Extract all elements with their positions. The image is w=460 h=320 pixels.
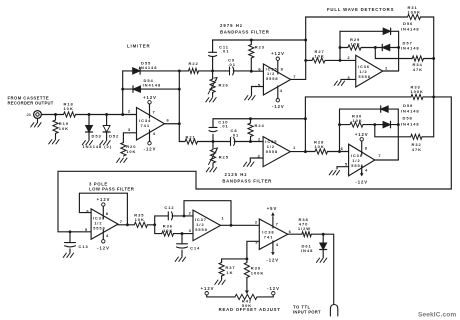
wire IC36b output column	[397, 109, 399, 160]
pin 8 label IC36b	[365, 145, 368, 150]
wire rail to right edge	[434, 97, 452, 189]
op-amp IC36b	[349, 144, 375, 176]
wire IC36a output	[383, 70, 399, 72]
diode D61	[301, 234, 327, 257]
ground at R26	[206, 98, 216, 102]
node output D54	[178, 88, 181, 91]
wire pin2 to IC36a	[340, 59, 356, 61]
node D57 anode	[374, 46, 377, 49]
wire BPF2 feedback rail	[213, 118, 305, 120]
+5V supply IC38	[267, 206, 277, 228]
svg-text:R23: R23	[255, 45, 265, 50]
svg-text:R24: R24	[255, 123, 265, 128]
svg-text:10K: 10K	[315, 54, 325, 59]
svg-text:6: 6	[167, 118, 170, 123]
svg-text:C12: C12	[164, 205, 174, 210]
svg-text:50K: 50K	[242, 303, 252, 308]
svg-text:7: 7	[378, 153, 381, 158]
pin 3 label IC35b	[258, 154, 261, 159]
wire feedback left column	[122, 71, 124, 115]
wire IC35a output	[291, 78, 306, 80]
ground at R19	[49, 140, 59, 144]
pin 3 label IC34	[128, 127, 131, 132]
svg-text:-12V: -12V	[97, 246, 110, 251]
svg-text:IN4148: IN4148	[401, 27, 420, 32]
op-amp IC34	[137, 108, 165, 141]
resistor R38	[288, 217, 324, 237]
svg-text:.01: .01	[220, 124, 228, 129]
label READ OFFSET ADJUST	[219, 307, 281, 312]
node D54 left	[121, 88, 124, 91]
svg-text:2: 2	[258, 137, 261, 142]
svg-text:+12V: +12V	[355, 132, 369, 137]
resistor R21	[179, 134, 213, 144]
svg-text:2975 Hz: 2975 Hz	[220, 23, 243, 28]
label FROM CASSETTE RECORDER OUTPUT	[8, 96, 54, 106]
svg-text:D58: D58	[403, 116, 413, 121]
node D58 cathode	[397, 123, 400, 126]
svg-text:-12V: -12V	[267, 286, 280, 291]
pin 4 label IC35a	[280, 88, 283, 93]
op-amp IC35b	[263, 137, 290, 167]
svg-text:8: 8	[281, 67, 284, 72]
ground at IC36b pin5	[329, 171, 339, 175]
resistor R28	[305, 140, 339, 155]
resistor R20	[121, 143, 137, 157]
node R35 R36 junction	[153, 223, 156, 226]
wire IC37b feedback box	[184, 201, 231, 226]
diode D58	[375, 116, 420, 128]
svg-text:IN48: IN48	[301, 248, 313, 253]
svg-text:SeekIC.com: SeekIC.com	[418, 312, 456, 319]
resistor R31	[408, 5, 434, 20]
label 2125 Hz BANDPASS FILTER	[222, 172, 272, 184]
resistor R29	[340, 37, 375, 50]
ground at IC35b pin3	[244, 162, 254, 166]
svg-text:100K: 100K	[408, 10, 421, 15]
svg-text:6: 6	[289, 229, 292, 234]
wire IC36a feedback left column	[339, 31, 341, 60]
ground at D53	[82, 141, 92, 145]
svg-text:10K: 10K	[353, 118, 363, 123]
trimmer R26	[208, 71, 229, 97]
svg-text:1: 1	[385, 66, 388, 71]
connector J1	[27, 111, 42, 123]
node R19 tap	[54, 113, 57, 116]
wire R36 to pin3	[182, 233, 193, 235]
ground at R25	[206, 168, 216, 172]
pin 4 label IC38	[276, 242, 279, 247]
node BPF1 rail junction	[304, 39, 307, 42]
-12V supply IC35a	[272, 86, 285, 109]
svg-text:4: 4	[280, 88, 283, 93]
-12V supply IC38	[266, 241, 279, 263]
-12V supply IC37a	[97, 230, 110, 251]
node R30 left	[338, 123, 341, 126]
svg-text:TO TTL: TO TTL	[293, 304, 311, 309]
svg-text:5558: 5558	[195, 227, 207, 232]
svg-text:7: 7	[276, 221, 279, 226]
pin 5 label IC37a	[85, 227, 88, 232]
svg-text:.01: .01	[221, 49, 229, 54]
pin 7 label IC37a	[120, 219, 123, 224]
ground at J1	[31, 123, 41, 127]
pin 2 label IC36a	[347, 55, 350, 60]
wire D54 line	[123, 88, 180, 90]
svg-text:BANDPASS FILTER: BANDPASS FILTER	[222, 179, 272, 184]
capacitor C10	[209, 119, 229, 142]
pin 4 label IC37a	[106, 233, 109, 238]
resistor R27	[306, 49, 340, 63]
node D58 anode	[373, 123, 376, 126]
label FULL WAVE DETECTORS	[327, 7, 394, 12]
svg-text:47K: 47K	[412, 147, 422, 152]
+12V supply IC34	[143, 95, 157, 118]
svg-text:R25: R25	[219, 155, 229, 160]
wire pin3 IC36a	[341, 79, 356, 80]
svg-text:741: 741	[264, 234, 274, 239]
label 2975 Hz BANDPASS FILTER	[220, 23, 270, 35]
pin 4 label IC34	[153, 131, 156, 136]
op-amp IC37b	[193, 210, 221, 241]
svg-text:RECORDER OUTPUT: RECORDER OUTPUT	[8, 101, 54, 106]
wire summing to LPF	[58, 171, 451, 232]
wire pin3 IC38	[247, 241, 259, 259]
wire D55 line	[123, 70, 180, 72]
capacitor C8	[213, 128, 251, 146]
svg-text:10K: 10K	[135, 217, 145, 222]
svg-text:-12V: -12V	[355, 180, 368, 185]
svg-text:D59: D59	[403, 103, 413, 108]
svg-text:IN4148: IN4148	[401, 109, 420, 114]
node feedback left	[121, 113, 124, 116]
svg-text:10K: 10K	[64, 106, 74, 111]
svg-text:100K: 100K	[411, 89, 424, 94]
wire pin5 IC35a	[252, 87, 264, 96]
svg-text:4: 4	[153, 131, 156, 136]
label 1N4148 (2)	[83, 144, 113, 149]
node D52 tap	[105, 113, 108, 116]
svg-text:10K: 10K	[126, 149, 136, 154]
svg-text:100K: 100K	[251, 270, 264, 275]
node BPF2 rail junction	[304, 117, 307, 120]
pin 2 label IC37b	[189, 210, 192, 215]
wire summing rail	[433, 17, 435, 137]
node C14 tap	[181, 232, 184, 235]
wire pin6 to IC36b	[340, 151, 349, 153]
node R23 top	[250, 39, 253, 42]
wire to IC35b pin2	[251, 141, 264, 143]
wire to IC35a pin6	[251, 70, 263, 72]
svg-text:4: 4	[106, 233, 109, 238]
svg-text:J1: J1	[27, 113, 32, 117]
wire pin3 IC34	[123, 133, 136, 143]
pin 5 label IC35a	[258, 83, 261, 88]
pin 3 label IC37b	[189, 228, 192, 233]
svg-text:1/2W: 1/2W	[298, 226, 311, 231]
node R37 R39 junction	[245, 257, 248, 260]
node IC36b pin6	[338, 150, 341, 153]
+12V supply IC35a	[271, 51, 285, 74]
potentiometer R42	[210, 294, 271, 308]
svg-text:6: 6	[341, 146, 344, 151]
wire IC36b output	[375, 159, 399, 161]
ground at R20	[117, 158, 127, 162]
svg-text:C13: C13	[79, 244, 89, 249]
svg-text:+5V: +5V	[267, 206, 277, 211]
capacitor C14	[177, 234, 201, 257]
wire D56 line	[340, 30, 399, 32]
svg-text:INPUT PORT: INPUT PORT	[293, 310, 321, 315]
svg-text:4: 4	[365, 167, 368, 172]
wire top rail	[306, 16, 408, 18]
resistor R22	[179, 61, 212, 74]
wire IC37b output	[221, 224, 260, 226]
svg-text:5558: 5558	[266, 149, 278, 154]
ground at C14	[175, 257, 185, 261]
wire C12 to pin2	[184, 215, 193, 217]
capacitor C11	[209, 40, 230, 71]
wire IC37a feedback box	[79, 193, 127, 225]
node C12 out	[183, 214, 186, 217]
pin 1 label IC35b	[293, 145, 296, 150]
node R29 left	[339, 46, 342, 49]
node IC36a pin2	[339, 59, 342, 62]
svg-text:5: 5	[345, 161, 348, 166]
wire R34 jog	[375, 48, 412, 59]
pin 6 label IC36b	[341, 146, 344, 151]
wire BPF1 feedback rail	[213, 39, 306, 41]
pin 2 label IC38	[255, 219, 258, 224]
svg-text:6: 6	[258, 66, 261, 71]
svg-text:IN4148: IN4148	[143, 83, 162, 88]
svg-text:10K: 10K	[315, 144, 325, 149]
label LIMITER	[127, 44, 151, 49]
pin 7 label IC36b	[378, 153, 381, 158]
node D61 tap	[322, 233, 325, 236]
svg-text:D56: D56	[403, 21, 413, 26]
svg-text:+12V: +12V	[201, 286, 215, 291]
svg-text:5558: 5558	[266, 76, 278, 81]
svg-text:47K: 47K	[413, 67, 423, 72]
node IC37a output	[126, 223, 129, 226]
node BPF2 output	[304, 150, 307, 153]
-12V supply IC36b	[355, 166, 368, 185]
wire R37 branch	[222, 258, 247, 260]
node BPF1 R27 junction	[304, 59, 307, 62]
resistor R37	[219, 259, 236, 280]
wire R18 to node	[76, 114, 137, 116]
wire IC35b output	[290, 151, 305, 153]
ground at C13	[63, 253, 73, 257]
watermark SeekIC.com	[418, 312, 456, 319]
op-amp IC38	[259, 219, 287, 249]
svg-text:BANDPASS FILTER: BANDPASS FILTER	[220, 30, 270, 35]
node BPF2 pin2	[249, 140, 252, 143]
diode D56	[383, 21, 420, 35]
svg-text:C14: C14	[190, 246, 200, 251]
resistor R34	[412, 56, 434, 72]
ground at R37	[215, 280, 225, 284]
wiper arrow R42	[245, 278, 249, 295]
resistor R32	[411, 134, 434, 152]
svg-text:10K: 10K	[59, 126, 69, 131]
diode D55	[133, 61, 158, 75]
-12V supply R42	[267, 286, 280, 297]
wire to TTL connector	[323, 234, 334, 304]
diode D57	[375, 40, 419, 50]
node BPF2 input	[212, 140, 215, 143]
pin 6 label IC37a	[86, 208, 89, 213]
resistor R30	[340, 114, 375, 128]
svg-text:IN4148: IN4148	[401, 121, 420, 126]
svg-text:+12V: +12V	[271, 51, 285, 56]
svg-text:IN4148: IN4148	[401, 46, 420, 51]
node BPF1 pin6	[250, 70, 253, 73]
wire BPF2 output column	[304, 97, 306, 152]
+12V supply R42	[201, 286, 215, 297]
wire IC36b feedback left column	[339, 109, 341, 151]
svg-text:LIMITER: LIMITER	[127, 44, 151, 49]
node IC37b output	[230, 224, 233, 227]
resistor R24	[248, 119, 265, 142]
svg-text:1K: 1K	[226, 270, 233, 275]
svg-text:5558: 5558	[93, 225, 105, 230]
+12V supply IC37a	[97, 197, 111, 219]
svg-text:7: 7	[293, 74, 296, 79]
svg-text:1: 1	[293, 145, 296, 150]
wire BPF1 output column	[305, 17, 307, 79]
svg-text:IN4148: IN4148	[139, 65, 158, 70]
node rail R33	[432, 95, 435, 98]
pin 3 label IC38	[255, 239, 258, 244]
capacitor C13	[65, 232, 89, 253]
ground at IC36a pin3	[334, 81, 344, 85]
resistor R18	[64, 102, 76, 118]
node output D55	[178, 69, 181, 72]
svg-text:1N4148 (2): 1N4148 (2)	[83, 144, 113, 149]
resistor R33	[305, 85, 433, 100]
svg-text:7: 7	[153, 110, 156, 115]
wire IC37a output	[118, 224, 134, 226]
node C13 tap	[69, 230, 72, 233]
resistor R23	[249, 40, 265, 71]
svg-text:10K: 10K	[163, 228, 173, 233]
svg-text:741: 741	[141, 123, 151, 128]
+12V supply IC36b	[355, 132, 369, 155]
svg-text:2: 2	[189, 210, 192, 215]
svg-text:10K: 10K	[351, 42, 361, 47]
node BPF1 input	[211, 69, 214, 72]
svg-text:8: 8	[365, 145, 368, 150]
wire pin5 IC36b	[337, 167, 349, 169]
resistor R36	[155, 223, 182, 236]
resistor R19	[53, 115, 69, 140]
svg-text:2: 2	[255, 219, 258, 224]
svg-text:1: 1	[222, 216, 225, 221]
diode D53	[86, 115, 102, 141]
pin 6 label IC35a	[258, 66, 261, 71]
diode D54	[133, 78, 161, 92]
resistor R35	[134, 213, 154, 228]
wire J1 to R18	[41, 114, 63, 116]
svg-text:R26: R26	[219, 82, 229, 87]
pin 3 label IC36a	[347, 75, 350, 80]
resistor R39	[244, 259, 264, 278]
trimmer R25	[209, 142, 229, 168]
pin 2 label IC34	[128, 108, 131, 113]
node IC34 output	[178, 122, 181, 125]
svg-text:7: 7	[120, 219, 123, 224]
svg-text:5558: 5558	[358, 74, 370, 79]
op-amp IC35a	[263, 64, 290, 95]
pin 1 label IC36a	[385, 66, 388, 71]
wire R32 jog	[375, 125, 411, 137]
ground at IC35a pin5	[245, 96, 255, 100]
svg-text:8: 8	[106, 211, 109, 216]
svg-text:.01: .01	[231, 132, 239, 137]
connector TTL output	[330, 305, 337, 317]
diode D59	[381, 103, 420, 114]
svg-text:D53: D53	[92, 134, 102, 139]
pin 4 label IC36b	[365, 167, 368, 172]
svg-text:+12V: +12V	[143, 95, 157, 100]
svg-text:3: 3	[128, 127, 131, 132]
ground at D52	[100, 141, 110, 145]
svg-text:5: 5	[85, 227, 88, 232]
label 3 POLE LOW PASS FILTER	[89, 182, 135, 192]
node rail R34	[432, 57, 435, 60]
diode D52	[103, 115, 119, 141]
svg-text:2: 2	[347, 55, 350, 60]
pin 7 label IC38	[276, 221, 279, 226]
wire IC34 output	[165, 123, 180, 125]
wire IC36a output column	[398, 31, 400, 71]
node R24 top	[249, 117, 252, 120]
ground at D61	[316, 258, 326, 262]
-12V supply IC34	[144, 130, 157, 152]
wire D59 line	[340, 108, 399, 110]
wire output column	[178, 71, 180, 142]
node D53 tap	[88, 113, 91, 116]
wire pin3 IC35b	[250, 158, 263, 162]
pin 8 label IC35a	[281, 67, 284, 72]
op-amp IC37a	[91, 209, 118, 239]
svg-text:4: 4	[276, 242, 279, 247]
label TO TTL INPUT PORT	[293, 304, 321, 314]
svg-text:.01: .01	[228, 62, 236, 67]
pin 8 label IC37a	[106, 211, 109, 216]
svg-text:-12V: -12V	[266, 258, 279, 263]
pin 5 label IC36b	[345, 161, 348, 166]
svg-text:LOW PASS FILTER: LOW PASS FILTER	[89, 187, 135, 192]
svg-text:3: 3	[189, 228, 192, 233]
svg-text:-12V: -12V	[272, 104, 285, 109]
svg-text:2: 2	[128, 108, 131, 113]
svg-text:D52: D52	[109, 134, 119, 139]
svg-text:2125 Hz: 2125 Hz	[225, 172, 248, 177]
pin 7 label IC34	[153, 110, 156, 115]
capacitor C9	[213, 58, 252, 75]
node D57 cathode	[397, 46, 400, 49]
svg-text:R22: R22	[189, 61, 199, 66]
svg-text:-12V: -12V	[144, 147, 157, 152]
svg-text:+12V: +12V	[97, 197, 111, 202]
svg-text:FULL WAVE DETECTORS: FULL WAVE DETECTORS	[327, 7, 394, 12]
capacitor C12	[155, 205, 184, 225]
pin 6 label IC38	[289, 229, 292, 234]
pin 7 label IC35a	[293, 74, 296, 79]
